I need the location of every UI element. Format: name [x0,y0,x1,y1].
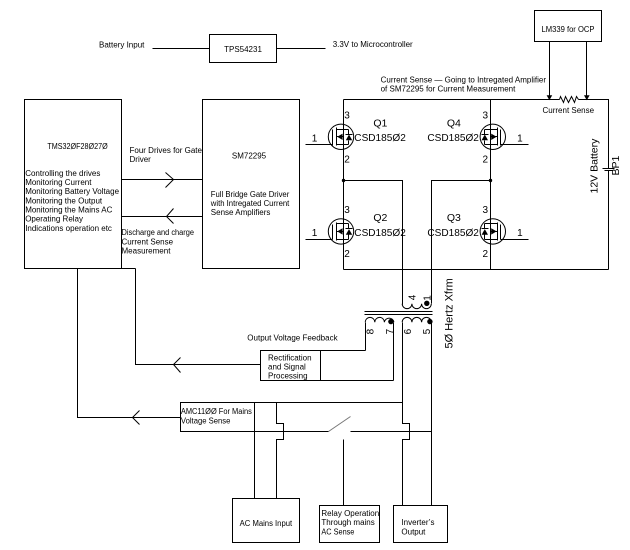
block AC Mains Input [233,499,300,543]
svg-text:3: 3 [482,205,488,216]
svg-text:CSD185Ø2: CSD185Ø2 [427,227,479,239]
wire TMS320 to rectification feedback [136,269,261,373]
svg-text:Output: Output [401,528,426,537]
wire rectification bottom to xfrm pin 7 [321,380,394,382]
svg-text:Current Sense — Going to Intre: Current Sense — Going to Intregated Ampl… [381,75,547,84]
transistor Q2 CSD18502 [306,205,406,260]
svg-text:AC Mains Input: AC Mains Input [240,519,293,528]
svg-text:Sense Amplifiers: Sense Amplifiers [211,208,271,217]
comparator LM339 for OCP [535,11,602,42]
svg-text:5Ø Hertz Xfrm: 5Ø Hertz Xfrm [444,278,456,348]
svg-text:Processing: Processing [268,371,308,380]
wire four drives for gate driver [122,146,203,188]
svg-text:7: 7 [385,328,396,334]
svg-text:2: 2 [482,249,488,260]
wire TMS320 to AMC1100 mains sense [78,269,181,425]
svg-text:Indications operation etc: Indications operation etc [25,224,112,233]
wire battery input to TPS54231 [153,48,210,50]
svg-text:1: 1 [517,134,523,145]
wire top rail [344,99,560,101]
svg-text:BP1: BP1 [610,155,622,175]
gate driver U3 SM72295 [203,100,300,269]
wire xfrm pin 7 down [393,323,395,381]
svg-text:Q3: Q3 [447,212,461,224]
svg-text:Monitoring Battery Voltage: Monitoring Battery Voltage [25,187,119,196]
wire relay left contact [255,431,329,433]
svg-text:4: 4 [407,294,418,300]
svg-text:Through mains: Through mains [321,518,374,527]
svg-text:Output Voltage Feedback: Output Voltage Feedback [247,334,338,343]
wire bottom rail [344,269,609,271]
svg-text:2: 2 [482,154,488,165]
wire LM339 left lead [547,42,553,101]
svg-text:6: 6 [403,328,414,334]
svg-text:Q2: Q2 [373,212,387,224]
svg-text:1: 1 [312,134,318,145]
svg-text:Discharge and charge: Discharge and charge [122,228,195,237]
svg-text:2: 2 [344,154,350,165]
wire LM339 right lead [584,42,590,101]
svg-text:Monitoring Current: Monitoring Current [25,178,92,187]
wire right leg [490,100,492,270]
wire battery to bottom rail [608,171,610,270]
svg-text:LM339 for OCP: LM339 for OCP [542,25,595,34]
wire xfrm pin 5 down [431,323,433,506]
relay K1 contact arm [329,417,351,432]
svg-text:TPS54231: TPS54231 [224,45,262,54]
wire relay control [343,440,345,506]
svg-text:Q4: Q4 [447,117,461,129]
svg-text:Current Sense: Current Sense [122,237,174,246]
svg-text:Monitoring the Mains AC: Monitoring the Mains AC [25,206,112,215]
wire AMC1100 right edge down to AC mains input [254,403,256,499]
block rectification and signal processing [261,351,321,381]
svg-text:with Intregated Current: with Intregated Current [210,199,290,208]
wire AMC1100 top edge to xfrm pin 6 [255,402,403,404]
svg-text:Current Sense: Current Sense [543,106,595,115]
note current sense annotation [381,75,547,93]
wire xfrm pin 6 down with hop [403,323,410,506]
wire relay right contact to xfrm pin 5 [351,431,432,433]
transformer T1 50 Hertz Xfrm [365,278,456,348]
svg-text:and Signal: and Signal [268,362,306,371]
svg-text:Operating Relay: Operating Relay [25,215,83,224]
svg-text:Measurement: Measurement [122,246,172,255]
svg-text:CSD185Ø2: CSD185Ø2 [354,132,406,144]
transistor Q3 CSD18502 [427,205,528,260]
transistor Q1 CSD18502 [306,111,406,166]
svg-text:Controlling the drives: Controlling the drives [25,169,100,178]
regulator U2 TPS54231 [210,35,277,63]
wire left leg [343,100,345,270]
svg-text:CSD185Ø2: CSD185Ø2 [427,132,479,144]
svg-text:Voltage Sense: Voltage Sense [181,417,231,426]
wire right mid rail to transformer pin 1 [432,181,491,304]
svg-text:3: 3 [344,205,350,216]
svg-text:Monitoring the Output: Monitoring the Output [25,196,103,205]
wire rectification top to xfrm pin 8 [321,350,366,352]
svg-text:Inverter’s: Inverter’s [401,518,434,527]
svg-text:1: 1 [312,228,318,239]
junction right mid [489,179,492,182]
battery BP1 [603,169,615,171]
junction left mid [342,179,345,182]
svg-text:3.3V to Microcontroller: 3.3V to Microcontroller [333,40,413,49]
svg-text:1: 1 [517,228,523,239]
svg-text:CSD185Ø2: CSD185Ø2 [354,227,406,239]
svg-text:Q1: Q1 [373,117,387,129]
svg-text:Driver: Driver [130,155,152,164]
microcontroller U1 TMS320F280270 [25,100,122,269]
block relay operation through mains AC sense [320,506,380,543]
resistor current sense [543,97,595,116]
svg-text:AMC11ØØ For Mains: AMC11ØØ For Mains [181,407,252,416]
block AMC1100 for mains voltage sense [181,403,255,432]
wire discharge charge current sense [122,209,203,256]
block inverter's output [394,506,448,543]
svg-text:1: 1 [422,295,433,301]
svg-text:Four Drives for Gate: Four Drives for Gate [130,146,203,155]
wire xfrm pin 8 down [365,323,367,351]
wire TMS320 bottom edge extension [122,268,136,270]
svg-text:8: 8 [365,328,376,334]
svg-text:12V Battery: 12V Battery [589,138,601,194]
wire left mid rail to transformer pin 4 [344,181,403,305]
svg-text:TMS32ØF28Ø27Ø: TMS32ØF28Ø27Ø [47,142,107,151]
svg-text:Full Bridge Gate Driver: Full Bridge Gate Driver [211,190,290,199]
svg-text:3: 3 [344,111,350,122]
svg-text:2: 2 [344,249,350,260]
svg-text:AC Sense: AC Sense [321,528,354,537]
wire mains line with hop [277,403,284,499]
svg-text:3: 3 [482,111,488,122]
svg-text:Battery Input: Battery Input [99,41,145,50]
wire TPS54231 output [277,48,326,50]
svg-text:of SM72295 for Current Measure: of SM72295 for Current Measurement [381,85,517,94]
wire resistor to battery corner [579,100,609,169]
svg-text:SM72295: SM72295 [232,151,267,160]
svg-text:Relay Operation: Relay Operation [321,509,379,518]
svg-text:Rectification: Rectification [268,353,312,362]
transistor Q4 CSD18502 [427,111,528,166]
